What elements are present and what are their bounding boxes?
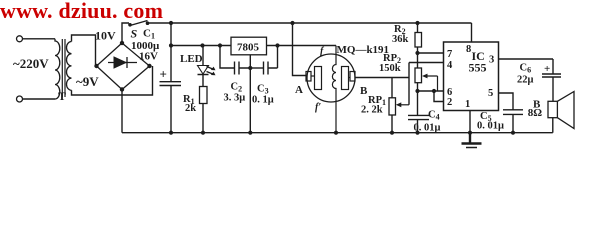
speaker B [548, 101, 557, 117]
node C5 rail [511, 131, 515, 135]
electrode A [306, 72, 311, 82]
svg-text:7805: 7805 [237, 42, 260, 54]
capacitor C4 [408, 91, 429, 133]
svg-text:8: 8 [466, 44, 471, 55]
resistor R1 [200, 87, 208, 104]
wire RP2 bottom [417, 83, 419, 91]
svg-text:C6: C6 [520, 63, 532, 75]
svg-text:~220V: ~220V [13, 56, 49, 71]
heater coil f-f' [332, 46, 336, 133]
svg-text:0. 01μ: 0. 01μ [477, 121, 504, 132]
pin 1 ground lead [469, 111, 471, 133]
svg-text:S: S [131, 27, 138, 41]
electrode B [342, 67, 349, 90]
wire speaker to rail [552, 118, 554, 133]
wire top rail [148, 22, 472, 24]
ground rail [122, 132, 553, 134]
node RP1 rail [390, 131, 394, 135]
switch S [128, 23, 132, 27]
ground symbol [462, 133, 482, 144]
node bridge bottom [120, 87, 124, 91]
wire pin5 to C5 [499, 93, 514, 110]
capacitor C5 [503, 110, 523, 133]
wire R1 to rail [202, 104, 204, 133]
resistor R2 [417, 23, 419, 33]
node C1 bottom on rail [169, 131, 173, 135]
node C1 top [169, 21, 173, 25]
pin 8 wire [471, 23, 473, 42]
terminal top-left [17, 36, 23, 42]
node bridge left [94, 64, 98, 68]
svg-text:7: 7 [447, 49, 452, 60]
wire RP1 bottom [391, 115, 393, 133]
node pin2 elbow [432, 89, 436, 93]
svg-text:8Ω: 8Ω [528, 107, 543, 119]
node C2 drop [218, 43, 222, 47]
transformer core [62, 39, 65, 97]
svg-text:0. 01μ: 0. 01μ [414, 123, 441, 134]
svg-text:B: B [360, 85, 368, 97]
capacitor C1 [160, 23, 182, 133]
wire pin2 [434, 91, 444, 102]
gas sensor MQ-k191 envelope [307, 54, 355, 102]
svg-text:C1: C1 [143, 28, 155, 41]
op-amp IC 555 [444, 42, 499, 111]
wire 5V rail left [171, 45, 231, 47]
transformer T primary winding [55, 39, 60, 99]
node bridge right [147, 64, 151, 68]
node bridge top [120, 41, 124, 45]
svg-text:5: 5 [488, 88, 493, 99]
wire pin4 [409, 62, 444, 64]
svg-text:+: + [544, 63, 550, 75]
capacitor C3 [264, 46, 278, 75]
node 7805 gnd [248, 66, 252, 70]
capacitor C6 [542, 59, 561, 101]
svg-text:16V: 16V [139, 51, 158, 63]
node C3 riser [275, 43, 279, 47]
svg-text:3: 3 [489, 55, 494, 66]
node 5V rail start [169, 43, 173, 47]
node sensor f' rail [334, 131, 338, 135]
wire electrode B [355, 77, 409, 79]
svg-text:2: 2 [447, 97, 452, 108]
wire secondary top to bridge left corner [72, 35, 96, 66]
svg-text:150k: 150k [379, 63, 401, 74]
svg-text:10V: 10V [95, 29, 116, 43]
node 7805 gnd rail [248, 131, 252, 135]
svg-text:f′: f′ [315, 102, 321, 113]
RP1 wiper arrow [399, 104, 409, 106]
svg-text:LED: LED [180, 53, 203, 65]
wire bridge top to switch [122, 23, 129, 43]
node R2 top [415, 21, 419, 25]
wire pin3 [499, 58, 554, 60]
svg-text:4: 4 [447, 60, 453, 71]
svg-text:C4: C4 [428, 110, 440, 122]
svg-text:0. 1μ: 0. 1μ [252, 95, 274, 106]
bridge diode [108, 57, 137, 68]
wire 7805 ground lead [249, 55, 251, 133]
wire [23, 98, 55, 100]
wire secondary bottom to bridge right corner [72, 66, 153, 95]
svg-text:22μ: 22μ [517, 75, 534, 86]
potentiometer RP2 [415, 68, 422, 83]
svg-text:36k: 36k [392, 34, 409, 45]
wire to C3 [250, 67, 263, 69]
svg-text:3. 3μ: 3. 3μ [224, 93, 246, 104]
svg-text:2. 2k: 2. 2k [361, 105, 383, 116]
node pin1 rail [468, 131, 472, 135]
bridge rectifier diamond [97, 43, 150, 90]
terminal bottom-left [17, 96, 23, 102]
regulator 7805 [231, 37, 267, 55]
wire to electrode A [293, 23, 307, 76]
svg-text:2k: 2k [185, 103, 196, 114]
wire B node vertical [408, 63, 410, 105]
svg-text:~9V: ~9V [76, 74, 99, 89]
node C4 rail [415, 131, 419, 135]
RP2 wiper arrow [426, 76, 438, 91]
svg-text:555: 555 [469, 61, 487, 75]
transformer T secondary winding [67, 42, 72, 91]
svg-text:1: 1 [465, 99, 470, 110]
watermark www.dziuu.com [0, 0, 163, 24]
wire [23, 38, 55, 40]
potentiometer RP1 [389, 98, 396, 115]
wire RP1 top [391, 78, 393, 98]
wire pin6 [418, 90, 444, 92]
wire down to C2 [220, 46, 235, 69]
node R1 bottom [201, 131, 205, 135]
wire bridge bottom to ground rail [121, 90, 123, 133]
node pin7 junction [415, 51, 419, 55]
svg-text:MQ—k191: MQ—k191 [337, 44, 390, 56]
node RP2 bottom [415, 89, 419, 93]
svg-text:T: T [58, 89, 66, 103]
node sensor A drop [290, 21, 294, 25]
svg-text:A: A [295, 84, 303, 96]
LED arrows [207, 67, 215, 75]
svg-text:+: + [160, 67, 167, 82]
LED D1 [198, 46, 209, 87]
node LED top [200, 43, 204, 47]
wire 5V rail right [267, 45, 337, 47]
capacitor C2 [235, 62, 251, 75]
wire pin7 [418, 52, 444, 54]
